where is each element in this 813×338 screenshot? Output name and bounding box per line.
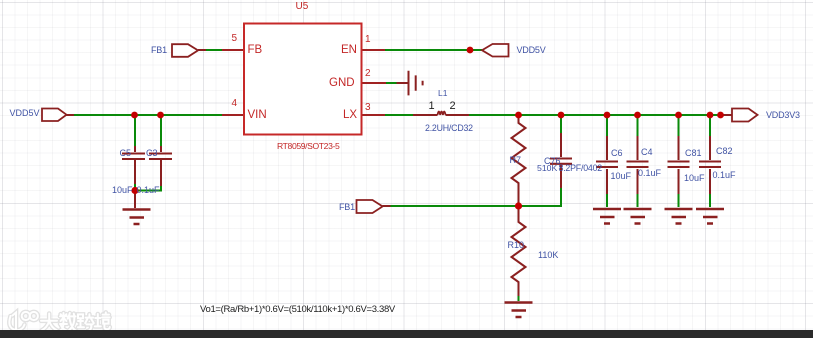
wire main VDD3V3 rail (469, 114, 732, 116)
capacitor C4 leads (637, 136, 639, 194)
wire FB1 to FB pin (206, 49, 222, 51)
capacitor C81 plates (668, 162, 690, 168)
value label 10uF C81 (684, 174, 705, 183)
port FB1 bottom (357, 200, 383, 213)
port FB1 top tail (198, 49, 206, 51)
value label 10uF C5 (112, 186, 133, 195)
inductor pin number 1 (429, 101, 435, 112)
designator C76 (544, 157, 561, 166)
junction C6 rail (604, 112, 611, 119)
resistor R7 (512, 116, 526, 205)
capacitor C76 plates (550, 159, 572, 164)
wire C76 top lead (560, 115, 562, 133)
wire C5 top lead (134, 115, 136, 146)
port FB1 bottom tail (383, 205, 391, 207)
net label VDD5V left (10, 109, 40, 118)
ground sideways at GND pin (409, 71, 423, 96)
pin number 3 (365, 103, 371, 113)
value label 2.2UH/CD32 (425, 124, 473, 133)
inductor L1 lead right (446, 114, 470, 116)
inductor L1 lead left (413, 114, 438, 116)
wire C5 bottom green segment (134, 184, 136, 191)
capacitor C4 plates (627, 162, 649, 168)
value label 110K (538, 251, 558, 260)
pin name VIN (248, 110, 267, 122)
designator R7 (510, 156, 522, 165)
designator L1 (438, 89, 447, 98)
wire R10 bottom green segment (518, 296, 520, 301)
wire C4 bottom lead (637, 194, 639, 207)
junction rail near port (717, 112, 724, 119)
wire FB1 lower net (391, 188, 562, 206)
capacitor C5 leads (134, 146, 136, 208)
inductor pin number 2 (450, 101, 456, 112)
pin number 1 (365, 35, 371, 45)
pin 3 LX stub (361, 114, 385, 116)
pin number 4 (232, 99, 238, 109)
net label VDD5V right (517, 46, 546, 55)
net label FB1 bottom (339, 203, 355, 212)
wire C81 top lead (678, 115, 680, 136)
ground below C81 (665, 209, 693, 224)
pin name LX (343, 110, 357, 122)
designator C82 (716, 147, 733, 156)
value label 8.2PF/0402 (559, 164, 602, 173)
wire C81 bottom lead (678, 194, 680, 207)
pin number 5 (232, 34, 238, 44)
pin 1 EN stub (361, 49, 385, 51)
port VDD5V left tail (66, 114, 74, 116)
port VDD3V3 (732, 109, 758, 122)
capacitor C5 plates (122, 154, 145, 160)
value label 0.1uF C4 (638, 169, 661, 178)
port VDD5V right (482, 44, 509, 57)
net label FB1 top (151, 46, 167, 55)
designator C4 (641, 148, 653, 157)
capacitor C3 plates (149, 154, 172, 160)
junction EN net (467, 47, 474, 54)
ground below C5 C3 (123, 210, 151, 225)
port VDD5V left (42, 109, 67, 122)
formula annotation (200, 305, 395, 315)
junction FB node (515, 202, 522, 209)
wire VDD5V rail to VIN (74, 114, 222, 116)
pin 4 VIN stub (222, 114, 244, 116)
net label VDD3V3 (766, 111, 800, 120)
pin name GND (329, 78, 355, 90)
port FB1 top (172, 44, 198, 57)
junction R7 rail (515, 112, 522, 119)
ground below C6 (593, 209, 621, 224)
designator C3 (146, 149, 158, 158)
value label 0.1uF C82 (713, 171, 736, 180)
value label 10uF C6 (611, 172, 632, 181)
pin 2 GND stub (361, 82, 386, 84)
resistor R10 (512, 208, 526, 296)
designator U5 (296, 2, 309, 12)
taskbar strip (0, 330, 813, 338)
junction C3 rail (157, 112, 164, 119)
value label RT8059/SOT23-5 (277, 142, 339, 151)
junction C5 C3 ground node (131, 187, 138, 194)
capacitor C6 plates (596, 162, 618, 168)
designator C81 (685, 149, 702, 158)
ground tail at GND pin (397, 82, 409, 84)
op-amp U5 body (244, 24, 362, 135)
ground below C4 (624, 209, 652, 224)
wire C3 bottom to junction (135, 186, 161, 191)
capacitor C82 plates (699, 162, 721, 168)
wire C6 bottom lead (606, 194, 608, 207)
pin 5 FB stub (222, 49, 244, 51)
ground below C82 (696, 209, 724, 224)
wire EN to VDD5V port (385, 49, 482, 51)
value label 510K (537, 164, 557, 173)
ground below R10 (505, 303, 533, 318)
wire C6 top lead (606, 115, 608, 136)
pin name EN (341, 45, 357, 57)
wire C3 top lead (160, 115, 162, 146)
designator R10 (508, 241, 525, 250)
inductor L1 humps (438, 112, 446, 116)
designator C6 (611, 149, 623, 158)
junction C4 rail (634, 112, 641, 119)
capacitor C82 leads (709, 136, 711, 194)
capacitor C3 leads (160, 146, 162, 186)
wire C82 top lead (709, 115, 711, 136)
port VDD3V3 tail (722, 114, 732, 116)
wire C4 top lead (637, 115, 639, 136)
wire LX to inductor (385, 114, 413, 116)
value label 0.1uF C3 (137, 186, 160, 195)
capacitor C81 leads (678, 136, 680, 194)
pin name FB (248, 45, 263, 57)
wire GND pin segment (386, 82, 397, 84)
junction C82 rail (707, 112, 714, 119)
junction C5 rail (131, 112, 138, 119)
capacitor C6 leads (606, 136, 608, 194)
capacitor C76 leads (560, 133, 562, 188)
junction C81 rail (675, 112, 682, 119)
wire C82 bottom lead (709, 194, 711, 207)
junction C76 rail (558, 112, 565, 119)
designator C5 (120, 149, 132, 158)
pin number 2 (365, 69, 371, 79)
